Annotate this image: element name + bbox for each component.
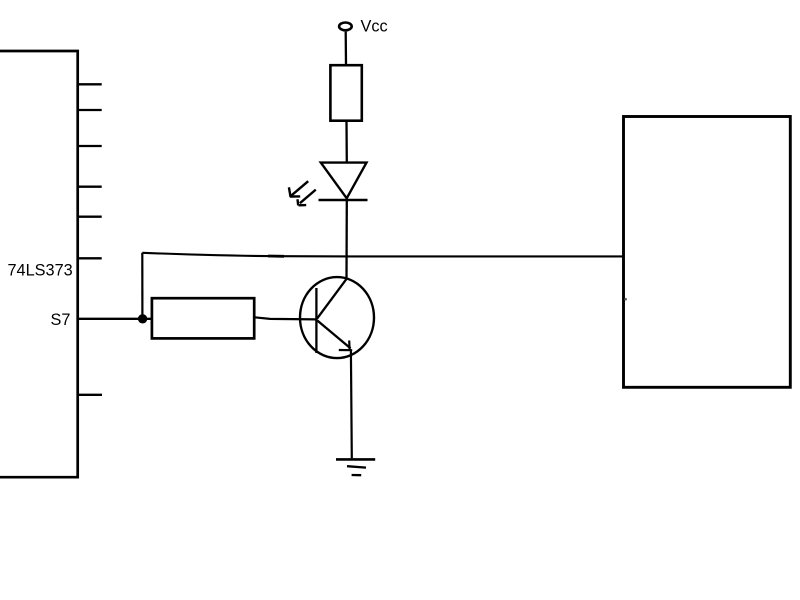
resistor R1: [330, 65, 361, 121]
IC U1 74LS373 body: [0, 51, 78, 477]
Vcc terminal: [339, 23, 352, 31]
wire S7 pin to R2: [79, 318, 152, 320]
D1 light arrow 1: [289, 181, 308, 197]
wire Vcc terminal to R1: [345, 32, 348, 65]
stub nub on U2 left edge: [624, 298, 627, 301]
transistor Q1: [300, 277, 374, 358]
wire net S7 to U2: [142, 253, 623, 257]
svg-text:74LS373: 74LS373: [8, 262, 73, 280]
U1 pin 8: [79, 394, 102, 396]
U1 pin 2: [78, 109, 102, 111]
wire Q1 emitter to ground: [350, 350, 353, 458]
block U2: [624, 117, 791, 388]
U1 pin 5: [78, 216, 102, 218]
wire LED anode to R1: [345, 122, 348, 163]
LED D1: [319, 163, 368, 200]
D1 light arrow 2: [298, 190, 316, 206]
wire overlap retrace: [268, 255, 284, 258]
ground: [336, 459, 375, 475]
junction dot: [138, 314, 147, 323]
svg-text:Vcc: Vcc: [361, 17, 388, 35]
U1 pin 3: [78, 145, 102, 147]
svg-text:S7: S7: [51, 311, 71, 329]
U1 pin 1: [78, 83, 102, 85]
U1 pin 4: [78, 186, 102, 188]
wire Q1 collector to LED cathode: [345, 200, 348, 279]
resistor R2: [152, 298, 254, 338]
wire R2 to Q1 base: [255, 317, 317, 319]
wire junction up: [141, 253, 143, 317]
U1 pin 6: [78, 257, 102, 259]
